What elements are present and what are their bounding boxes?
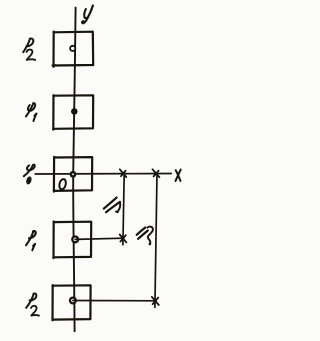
leader line from bottom P2 <box>73 300 156 302</box>
label P0 <box>24 165 35 185</box>
dimension line y2 vertical <box>155 174 157 308</box>
label x <box>176 170 181 182</box>
leader line from lower P1 <box>75 238 123 239</box>
arrow tick bottom of y1 <box>120 235 127 243</box>
square P2 top <box>53 32 94 67</box>
arrow tick top of y1 <box>120 169 126 177</box>
label O origin <box>58 178 67 190</box>
label y2 rotated <box>137 227 153 246</box>
x-axis <box>35 173 171 176</box>
node dot upper P1 <box>71 108 78 115</box>
square P1 upper <box>53 95 93 129</box>
node dot origin <box>71 172 75 176</box>
arrow tick top of y2 <box>153 169 160 177</box>
square P0 center <box>54 157 92 192</box>
label P1 upper <box>26 103 37 121</box>
label P2 top <box>23 38 35 59</box>
dimension line y1 vertical <box>123 174 124 245</box>
label y <box>82 6 93 24</box>
y-axis <box>73 8 75 332</box>
label P1 lower <box>26 231 36 250</box>
node circle top P2 <box>70 46 75 51</box>
label y1 rotated <box>104 198 120 213</box>
square P2 bottom <box>53 285 91 320</box>
node circle lower P1 <box>72 237 78 243</box>
node circle bottom P2 <box>70 298 76 304</box>
label P2 bottom <box>26 293 39 315</box>
arrow tick bottom of y2 <box>152 297 159 305</box>
square P1 lower <box>53 222 91 259</box>
